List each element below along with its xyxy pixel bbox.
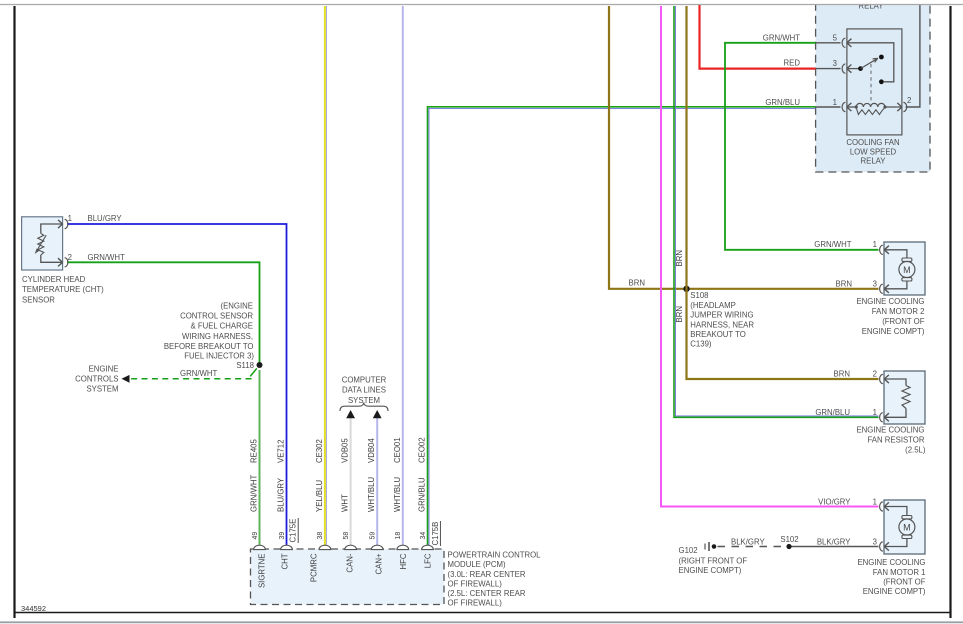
svg-text:49: 49 <box>252 532 259 540</box>
svg-text:BRN: BRN <box>834 370 850 379</box>
svg-text:ENGINE COOLING: ENGINE COOLING <box>857 558 925 567</box>
svg-text:CEO01: CEO01 <box>393 437 402 463</box>
caption engine controls system <box>75 365 118 394</box>
wire GRN/WHT dashed branch to engine controls system <box>122 368 257 382</box>
svg-text:& FUEL CHARGE: & FUEL CHARGE <box>190 322 253 331</box>
page border left black line <box>13 6 15 618</box>
caption S108 note <box>690 291 754 349</box>
svg-text:ENGINE COOLING: ENGINE COOLING <box>856 297 924 306</box>
svg-text:WHT/BLU: WHT/BLU <box>367 477 376 512</box>
relay pin 3 connector <box>816 68 841 70</box>
svg-text:GRN/WHT: GRN/WHT <box>180 369 217 378</box>
svg-text:SIGRTNE: SIGRTNE <box>258 554 267 589</box>
svg-text:39: 39 <box>279 532 286 540</box>
svg-text:3: 3 <box>873 537 877 546</box>
svg-text:59: 59 <box>370 532 377 540</box>
fan resistor box <box>880 371 925 424</box>
ground G102 symbol <box>705 542 716 551</box>
caption engine cooling fan resistor <box>856 426 925 455</box>
pin 1 connector <box>58 220 63 228</box>
svg-text:344592: 344592 <box>21 604 46 613</box>
svg-text:BRN: BRN <box>836 280 852 289</box>
svg-text:ENGINE COMPT): ENGINE COMPT) <box>862 327 925 336</box>
svg-text:CEO02: CEO02 <box>418 437 427 463</box>
svg-text:OF FIREWALL): OF FIREWALL) <box>448 599 503 608</box>
brace under computer data lines system <box>340 403 388 412</box>
caption cooling fan low speed relay <box>846 138 899 166</box>
svg-text:FAN RESISTOR: FAN RESISTOR <box>867 436 924 445</box>
svg-text:COMPUTER: COMPUTER <box>342 375 387 384</box>
relay pin 5 connector <box>816 42 841 44</box>
svg-text:(ENGINE: (ENGINE <box>221 302 254 311</box>
svg-text:34: 34 <box>420 532 427 540</box>
motor2 pin 1 connector <box>880 245 883 254</box>
svg-text:2: 2 <box>68 253 72 262</box>
relay switch <box>852 43 894 82</box>
svg-text:LFC: LFC <box>424 553 433 568</box>
svg-text:GRN/WHT: GRN/WHT <box>88 253 125 262</box>
svg-text:FAN MOTOR 2: FAN MOTOR 2 <box>872 307 925 316</box>
splice S108 <box>683 286 689 292</box>
svg-text:YEL/BLU: YEL/BLU <box>315 480 324 512</box>
wire RED to relay pin 3 <box>700 5 816 69</box>
svg-text:BLU/GRY: BLU/GRY <box>88 214 123 223</box>
motor1 pin 3 connector <box>880 542 883 551</box>
svg-text:C139): C139) <box>690 340 712 349</box>
relay pin 1 connector <box>816 106 841 108</box>
svg-text:1: 1 <box>833 98 837 107</box>
svg-text:CYLINDER HEAD: CYLINDER HEAD <box>22 275 86 284</box>
splice S102 <box>786 544 791 549</box>
svg-text:(FRONT OF: (FRONT OF <box>882 317 925 326</box>
arrow CAN+ to computer data lines <box>373 410 382 418</box>
svg-text:BLK/GRY: BLK/GRY <box>817 537 851 546</box>
top clip band <box>0 0 963 4</box>
svg-text:C175B: C175B <box>431 522 440 546</box>
svg-text:VE712: VE712 <box>277 440 286 463</box>
svg-text:COOLING FAN: COOLING FAN <box>846 138 899 147</box>
relay inner box <box>816 5 920 135</box>
svg-text:BLU/GRY: BLU/GRY <box>277 477 286 512</box>
svg-text:CAN-: CAN- <box>346 553 355 572</box>
rotated circuit labels <box>250 437 427 463</box>
arrow CAN- to computer data lines <box>346 410 355 418</box>
svg-text:BRN: BRN <box>629 278 645 287</box>
wire BLK/GRY dashed S102 to ground G102 <box>718 546 787 548</box>
svg-text:LOW SPEED: LOW SPEED <box>850 148 897 157</box>
svg-text:2: 2 <box>873 370 877 379</box>
svg-text:BLK/GRY: BLK/GRY <box>731 537 765 546</box>
svg-text:18: 18 <box>395 532 402 540</box>
svg-text:PCMRC: PCMRC <box>310 553 319 582</box>
rotated pin numbers <box>252 532 427 540</box>
svg-text:2: 2 <box>907 96 911 105</box>
svg-text:GRN/BLU: GRN/BLU <box>765 98 800 107</box>
svg-text:RELAY: RELAY <box>861 157 887 166</box>
connector label C175B <box>431 521 441 546</box>
caption engine cooling fan motor 1 <box>857 558 925 596</box>
svg-text:BRN: BRN <box>675 306 684 322</box>
svg-text:GRN/WHT: GRN/WHT <box>763 33 800 42</box>
svg-text:ENGINE COMPT): ENGINE COMPT) <box>679 566 742 575</box>
svg-text:MODULE (PCM): MODULE (PCM) <box>448 560 506 569</box>
svg-text:BEFORE BREAKOUT TO: BEFORE BREAKOUT TO <box>164 342 254 351</box>
relay dashed enclosure (cooling fan low speed relay) <box>816 0 930 172</box>
relay coil dashed link <box>870 64 872 102</box>
svg-text:VIO/GRY: VIO/GRY <box>818 497 851 506</box>
svg-text:VDB05: VDB05 <box>341 438 350 463</box>
svg-text:1: 1 <box>873 497 877 506</box>
svg-text:1: 1 <box>873 240 877 249</box>
relay pin 2 connector <box>903 102 906 111</box>
svg-text:WIRING HARNESS,: WIRING HARNESS, <box>182 332 253 341</box>
caption engine cooling fan motor 2 <box>856 297 924 336</box>
svg-text:GRN/BLU: GRN/BLU <box>418 477 427 512</box>
svg-text:CONTROL SENSOR: CONTROL SENSOR <box>180 312 253 321</box>
svg-text:GRN/WHT: GRN/WHT <box>250 475 259 512</box>
rotated color labels <box>250 475 427 512</box>
svg-text:OF FIREWALL): OF FIREWALL) <box>448 579 503 588</box>
svg-text:BRN: BRN <box>675 250 684 266</box>
svg-text:S118: S118 <box>236 361 254 370</box>
svg-text:CE302: CE302 <box>315 439 324 463</box>
wire GRN/WHT RE405 below splice S118 to PCM <box>259 370 261 549</box>
svg-text:58: 58 <box>343 532 350 540</box>
svg-text:G102: G102 <box>679 546 698 555</box>
svg-text:ENGINE COOLING: ENGINE COOLING <box>856 426 924 435</box>
wire VIO/GRY to fan motor 1 pin 1 <box>661 6 879 507</box>
svg-text:DATA LINES: DATA LINES <box>342 386 386 395</box>
wire WHT VDB05 (CAN-) <box>350 418 352 550</box>
svg-text:RE405: RE405 <box>250 438 259 463</box>
wire BRN vertical 1 to S108 and fan motor 2 pin 3 <box>609 6 879 289</box>
svg-text:C175E: C175E <box>289 519 298 543</box>
svg-text:JUMPER WIRING: JUMPER WIRING <box>690 311 753 320</box>
svg-text:(2.5L: CENTER REAR: (2.5L: CENTER REAR <box>448 589 526 598</box>
svg-text:3: 3 <box>833 59 837 68</box>
svg-text:(RIGHT FRONT OF: (RIGHT FRONT OF <box>679 556 748 565</box>
svg-text:FUEL INJECTOR 3): FUEL INJECTOR 3) <box>184 351 254 360</box>
svg-text:HARNESS, NEAR: HARNESS, NEAR <box>690 320 754 329</box>
wire WHT/BLU CEO01 (HFC) <box>402 6 404 549</box>
svg-text:M: M <box>903 523 911 533</box>
PCM box <box>251 545 445 604</box>
svg-text:(HEADLAMP: (HEADLAMP <box>690 301 736 310</box>
wire WHT/BLU VDB04 (CAN+) <box>376 418 378 550</box>
svg-text:3: 3 <box>873 280 877 289</box>
svg-text:WHT/BLU: WHT/BLU <box>393 477 402 512</box>
fan motor 1 box <box>880 500 925 554</box>
svg-text:S102: S102 <box>780 535 798 544</box>
pin bumps <box>254 545 434 549</box>
connector label C175E <box>289 518 299 543</box>
svg-text:(2.5L): (2.5L) <box>905 445 926 454</box>
svg-text:1: 1 <box>68 214 72 223</box>
svg-text:TEMPERATURE (CHT): TEMPERATURE (CHT) <box>22 285 104 294</box>
wire YEL/BLU CE302 (PCMRC) <box>325 6 327 549</box>
page border right black line <box>949 6 951 618</box>
svg-text:S108: S108 <box>690 291 708 300</box>
svg-text:SYSTEM: SYSTEM <box>86 384 118 393</box>
svg-text:HFC: HFC <box>399 553 408 569</box>
svg-text:38: 38 <box>317 532 324 540</box>
splice S118 <box>257 362 263 368</box>
CHT sensor box <box>22 217 68 270</box>
wire BRN from S108 to fan resistor pin 2 <box>687 6 879 379</box>
svg-text:1: 1 <box>873 408 877 417</box>
pin 2 connector <box>58 258 63 266</box>
svg-text:M: M <box>903 265 911 275</box>
thermistor symbol <box>41 224 63 262</box>
svg-text:(3.0L: REAR CENTER: (3.0L: REAR CENTER <box>448 570 526 579</box>
svg-text:(FRONT OF: (FRONT OF <box>883 578 926 587</box>
caption powertrain control module <box>448 551 542 608</box>
svg-text:BREAKOUT TO: BREAKOUT TO <box>690 330 745 339</box>
bottom window gray line <box>0 621 963 623</box>
resistor pin 1 connector <box>880 413 883 422</box>
svg-text:FAN MOTOR 1: FAN MOTOR 1 <box>873 568 926 577</box>
caption computer data lines system <box>342 375 387 405</box>
wire GRN/BLU to fan resistor pin 1 <box>674 6 879 417</box>
wire BLK/GRY fan motor 1 pin 3 to S102 <box>789 546 879 548</box>
svg-text:POWERTRAIN CONTROL: POWERTRAIN CONTROL <box>448 551 542 560</box>
motor1 pin 1 connector <box>880 502 883 511</box>
svg-text:VDB04: VDB04 <box>367 438 376 463</box>
svg-text:5: 5 <box>833 33 838 42</box>
svg-text:SENSOR: SENSOR <box>22 295 55 304</box>
wire GRN/BLU CEO02 (LFC) to relay pin 1 <box>428 107 816 549</box>
wire GRN/WHT RE405 (SIGRTNE) <box>67 262 260 365</box>
wire GRN/WHT relay pin5 to fan motor 2 pin 1 <box>725 43 879 250</box>
svg-text:CHT: CHT <box>281 553 290 569</box>
svg-text:RED: RED <box>784 59 801 68</box>
svg-text:GRN/BLU: GRN/BLU <box>815 408 850 417</box>
wire BLU/GRY VE712 (CHT) <box>67 224 287 549</box>
caption G102 <box>679 546 748 575</box>
resistor pin 2 connector <box>880 374 883 383</box>
svg-text:WHT: WHT <box>341 494 350 512</box>
relay coil <box>852 106 856 108</box>
svg-text:ENGINE COMPT): ENGINE COMPT) <box>863 587 926 596</box>
svg-text:CAN+: CAN+ <box>375 553 384 574</box>
fan motor 2 box <box>880 242 925 295</box>
page border bottom black line <box>15 612 951 614</box>
svg-text:ENGINE: ENGINE <box>89 365 119 374</box>
page border top gray line <box>0 4 963 6</box>
harness note text <box>164 302 255 361</box>
svg-text:GRN/WHT: GRN/WHT <box>814 240 851 249</box>
svg-text:CONTROLS: CONTROLS <box>75 375 118 384</box>
motor2 pin 3 connector <box>880 284 883 293</box>
